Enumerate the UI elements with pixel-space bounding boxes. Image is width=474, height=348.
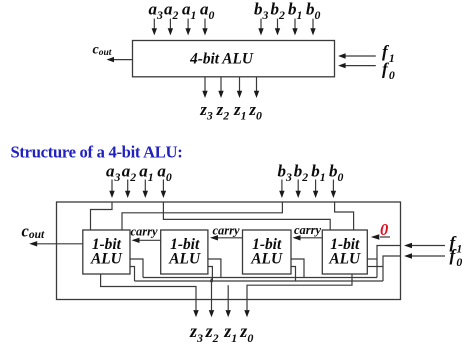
svg-text:ALU: ALU [90, 251, 123, 268]
control arrow f1 bottom [412, 245, 446, 247]
carry-out arrow top [113, 59, 133, 61]
wire b3 into ALU U3 [122, 202, 282, 230]
svg-text:z2: z2 [205, 321, 219, 345]
svg-text:Structure of a 4-bit ALU:: Structure of a 4-bit ALU: [11, 143, 183, 162]
wire f0 stub U0 [367, 266, 383, 268]
control arrow f0 top [345, 65, 376, 67]
svg-text:z2: z2 [216, 100, 230, 123]
svg-text:a1: a1 [182, 0, 196, 22]
svg-text:b2: b2 [294, 161, 309, 184]
1-bit ALU box U0 [322, 230, 367, 274]
svg-text:0: 0 [380, 220, 388, 239]
svg-text:carry: carry [131, 225, 159, 239]
wire f0 bus [135, 280, 384, 282]
input arrow b2 [297, 180, 299, 192]
svg-text:ALU: ALU [250, 251, 283, 268]
wire f1 feed [377, 246, 401, 278]
outer enclosure box [57, 202, 401, 300]
carry arrow U0->U1 [300, 237, 322, 239]
svg-text:a0: a0 [157, 161, 172, 184]
wire f1 stub U0 [367, 258, 377, 260]
input arrow a3 [111, 180, 113, 192]
wire f0 riser U3 [130, 267, 135, 282]
svg-text:z0: z0 [239, 321, 253, 345]
svg-text:a3: a3 [149, 0, 164, 22]
output arrow z2 top [220, 77, 222, 92]
svg-text:b0: b0 [329, 161, 344, 184]
svg-text:z3: z3 [199, 100, 213, 123]
wire b0 into ALU U0 [335, 202, 354, 230]
input arrow b1 [315, 180, 317, 192]
wire f1 riser U3 [130, 259, 143, 278]
svg-text:b3: b3 [278, 161, 293, 184]
input arrow b3 [281, 180, 283, 192]
1-bit ALU box U3 [83, 230, 130, 274]
carry arrow U1->U2 [218, 237, 243, 239]
svg-text:z1: z1 [223, 321, 237, 345]
wire z0 [247, 274, 352, 310]
svg-text:carry: carry [213, 224, 241, 238]
wire f0 feed [383, 256, 401, 281]
wire z1 [227, 285, 229, 310]
svg-text:a1: a1 [139, 161, 153, 184]
svg-text:ALU: ALU [328, 251, 361, 268]
wire z2 [211, 279, 213, 311]
output arrow z1 top [239, 77, 241, 92]
output arrow z0 top [256, 77, 258, 92]
input arrow b0 [332, 180, 334, 192]
wire f1 riser U1 [291, 259, 304, 278]
input arrow a3 [153, 19, 155, 29]
wire f0 riser U1 [291, 267, 296, 282]
svg-text:carry: carry [294, 223, 322, 237]
input arrow a0 [162, 180, 164, 192]
svg-text:z3: z3 [189, 321, 203, 345]
input arrow a0 [204, 19, 206, 29]
wire z3 [101, 274, 196, 310]
input arrow a2 [127, 180, 129, 192]
wire f1 bus [143, 277, 377, 279]
svg-text:cout: cout [93, 43, 112, 58]
1-bit ALU box U1 [243, 230, 292, 274]
input arrow b2 [277, 19, 279, 29]
input arrow a2 [169, 19, 171, 29]
4-bit ALU box U0 [133, 41, 335, 77]
svg-text:z1: z1 [233, 100, 247, 123]
svg-text:cout: cout [22, 221, 45, 241]
svg-text:a2: a2 [164, 0, 179, 22]
wire f1 riser U2 [208, 259, 221, 278]
svg-text:a3: a3 [106, 161, 121, 184]
1-bit ALU box U2 [161, 230, 208, 274]
carry arrow U2->U3 [139, 239, 161, 241]
wire a0 into ALU U0 [163, 202, 330, 230]
input arrow a1 [187, 19, 189, 29]
input arrow b0 [312, 19, 314, 29]
svg-text:4-bit ALU: 4-bit ALU [189, 51, 254, 68]
wire a3 into ALU U3 [91, 202, 113, 230]
svg-text:a2: a2 [122, 161, 137, 184]
carry-in arrow 0->U0 [380, 236, 390, 238]
svg-text:z0: z0 [248, 100, 262, 123]
output arrow z3 top [204, 77, 206, 92]
carry-out wire + arrow bottom [37, 243, 83, 245]
input arrow a1 [144, 180, 146, 192]
svg-text:a0: a0 [200, 0, 215, 22]
control arrow f0 bottom [412, 255, 446, 257]
wire f0 riser U2 [208, 267, 213, 282]
input arrow b1 [294, 19, 296, 29]
input arrow b3 [260, 19, 262, 29]
control arrow f1 top [345, 55, 376, 57]
svg-text:ALU: ALU [168, 251, 201, 268]
svg-text:b1: b1 [311, 161, 325, 184]
